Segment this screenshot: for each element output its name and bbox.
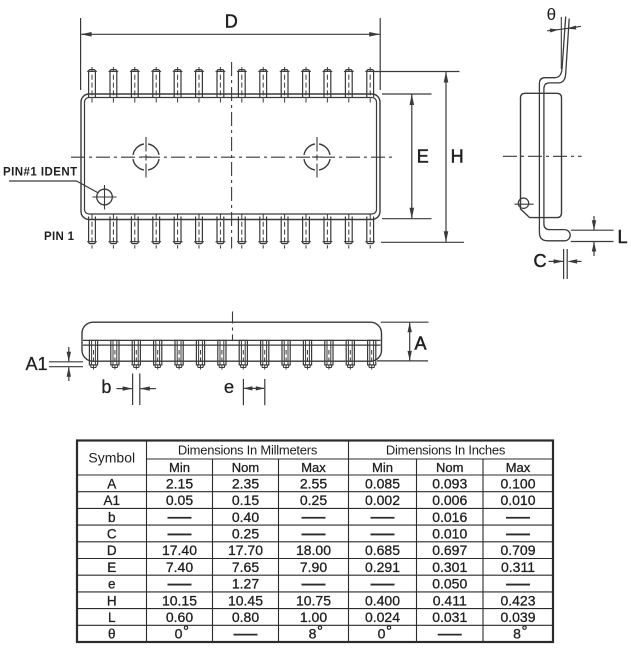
- top view pin (bottom row) 6: [194, 214, 204, 249]
- svg-text:Dimensions In Millmeters: Dimensions In Millmeters: [178, 442, 318, 457]
- svg-text:0.050: 0.050: [432, 576, 467, 592]
- table row A1: [103, 492, 535, 508]
- svg-text:10.15: 10.15: [162, 592, 197, 608]
- top view vertical centerline: [231, 62, 233, 249]
- label PIN#1 IDENT: [3, 167, 78, 179]
- svg-text:C: C: [534, 251, 547, 271]
- side view pin 12: [325, 340, 333, 371]
- dimension e arrows: [243, 386, 264, 390]
- dimension H extension lines: [375, 72, 465, 243]
- dimension H line: [444, 72, 449, 243]
- svg-text:0.25: 0.25: [300, 492, 327, 508]
- top view pin 14 (top row): [365, 67, 375, 103]
- end view notch circle: [515, 198, 534, 208]
- svg-text:0.709: 0.709: [500, 542, 535, 558]
- svg-text:e: e: [108, 577, 116, 592]
- svg-text:D: D: [107, 543, 117, 558]
- table row E: [107, 559, 535, 575]
- svg-text:θ: θ: [108, 627, 116, 642]
- top view pin (bottom row) 3: [130, 214, 140, 249]
- label L: [618, 227, 628, 247]
- top view index hole left: [133, 137, 159, 178]
- top view pin (bottom row) 8: [237, 214, 247, 249]
- svg-text:e: e: [224, 376, 234, 397]
- top view pin (bottom row) 2: [109, 214, 119, 249]
- svg-text:1.00: 1.00: [300, 609, 327, 625]
- svg-text:PIN#1 IDENT: PIN#1 IDENT: [3, 167, 78, 179]
- table header Dimensions In Millmeters: [178, 442, 318, 457]
- svg-text:Nom: Nom: [232, 460, 259, 475]
- svg-text:0: 0: [175, 626, 183, 642]
- label b: [101, 377, 111, 397]
- svg-text:0.423: 0.423: [500, 592, 535, 608]
- svg-text:0.010: 0.010: [432, 525, 467, 541]
- top view pin (bottom row) 12: [323, 214, 333, 249]
- label C: [534, 251, 547, 271]
- dimension D line: [81, 32, 381, 37]
- svg-text:7.40: 7.40: [166, 559, 193, 575]
- table row C: [107, 525, 530, 541]
- svg-text:A1: A1: [103, 493, 120, 508]
- table row D: [107, 542, 536, 558]
- top view pin 6 (top row): [194, 67, 204, 103]
- svg-text:7.65: 7.65: [232, 559, 259, 575]
- svg-text:L: L: [618, 227, 628, 247]
- top view pin 12 (top row): [323, 67, 333, 103]
- svg-text:0.685: 0.685: [365, 542, 400, 558]
- svg-text:2.15: 2.15: [166, 475, 193, 491]
- svg-text:0.15: 0.15: [232, 492, 259, 508]
- side view pin 6: [196, 340, 204, 371]
- dimension L extension lines: [571, 230, 614, 241]
- svg-text:0.016: 0.016: [432, 509, 467, 525]
- svg-text:0.400: 0.400: [365, 592, 400, 608]
- end view theta reference line: [560, 17, 562, 69]
- svg-text:7.90: 7.90: [300, 559, 327, 575]
- theta angle arc: [547, 26, 581, 33]
- top view pin (bottom row) 4: [151, 214, 161, 249]
- top view pin 10 (top row): [280, 67, 290, 103]
- dimension D extension lines: [81, 18, 381, 90]
- dimension C extension lines: [564, 249, 568, 279]
- top view pin (bottom row) 10: [280, 214, 290, 249]
- side view pin 5: [175, 340, 183, 371]
- svg-text:0.80: 0.80: [232, 609, 259, 625]
- side view pin 3: [132, 340, 140, 371]
- dimension A extension lines: [377, 322, 429, 361]
- table outer border: [77, 441, 553, 643]
- svg-text:2.35: 2.35: [232, 475, 259, 491]
- end view horizontal centerline: [503, 155, 582, 157]
- top view index hole right: [304, 137, 330, 178]
- side view vertical centerline: [232, 312, 234, 342]
- table row &#952;: [108, 626, 526, 642]
- svg-text:Max: Max: [301, 460, 326, 475]
- dimension b extension lines: [133, 374, 140, 406]
- svg-text:Max: Max: [506, 460, 531, 475]
- table header Dimensions In Inches: [386, 442, 506, 457]
- svg-text:0.010: 0.010: [500, 492, 535, 508]
- svg-text:0.093: 0.093: [432, 475, 467, 491]
- dimension E line: [410, 94, 415, 219]
- dimension E extension lines: [382, 94, 432, 219]
- svg-text:0.002: 0.002: [365, 492, 400, 508]
- label D: [225, 12, 238, 32]
- svg-text:H: H: [107, 593, 117, 608]
- label E: [417, 147, 429, 167]
- svg-text:8: 8: [309, 626, 317, 642]
- svg-text:0.039: 0.039: [500, 609, 535, 625]
- top view pin (bottom row) 7: [216, 214, 226, 249]
- dimension C arrows: [549, 259, 582, 263]
- svg-text:E: E: [107, 560, 116, 575]
- label PIN 1: [44, 231, 75, 243]
- svg-text:0: 0: [378, 626, 386, 642]
- svg-text:10.45: 10.45: [228, 592, 263, 608]
- side view pin 1: [89, 340, 97, 371]
- dimension L arrows: [592, 216, 596, 256]
- svg-text:8: 8: [513, 626, 521, 642]
- svg-text:0.100: 0.100: [500, 475, 535, 491]
- label A: [415, 333, 427, 353]
- svg-text:18.00: 18.00: [296, 542, 331, 558]
- svg-text:0.024: 0.024: [365, 609, 400, 625]
- svg-text:0.411: 0.411: [433, 592, 467, 608]
- svg-text:Nom: Nom: [436, 460, 463, 475]
- svg-text:A1: A1: [26, 354, 48, 374]
- table column lines: [147, 441, 484, 643]
- side view body outline: [82, 322, 382, 361]
- top view pin 9 (top row): [258, 67, 268, 103]
- svg-text:θ: θ: [547, 5, 556, 24]
- label H: [451, 147, 464, 167]
- top view pin (bottom row) 13: [344, 214, 354, 249]
- svg-text:Min: Min: [169, 460, 190, 475]
- svg-text:Min: Min: [372, 460, 393, 475]
- end view lead inner face: [544, 19, 569, 230]
- side view pin 4: [154, 340, 162, 371]
- top view pin 7 (top row): [216, 67, 226, 103]
- pin 1 ident leader line: [9, 181, 98, 193]
- svg-text:Dimensions In Inches: Dimensions In Inches: [386, 442, 506, 457]
- svg-text:1.27: 1.27: [232, 576, 259, 592]
- top view pin 3 (top row): [130, 67, 140, 103]
- top view horizontal centerline: [71, 156, 393, 158]
- dimension b arrows: [117, 386, 156, 390]
- svg-text:0.40: 0.40: [232, 509, 259, 525]
- side view pin 13: [346, 340, 354, 371]
- top view pin 11 (top row): [301, 67, 311, 103]
- top view pin (bottom row) 1: [87, 214, 97, 249]
- dimension A1 arrows: [67, 347, 71, 381]
- side view pin 10: [282, 340, 290, 371]
- top view pin 4 (top row): [151, 67, 161, 103]
- svg-text:0.085: 0.085: [365, 475, 400, 491]
- side view pin 7: [218, 340, 226, 371]
- pin 1 ident circle: [93, 185, 117, 210]
- svg-text:PIN 1: PIN 1: [44, 231, 75, 243]
- svg-text:17.70: 17.70: [228, 542, 263, 558]
- label A1: [26, 354, 48, 374]
- top view pin 1 (top row): [87, 67, 97, 103]
- top view pin 5 (top row): [173, 67, 183, 103]
- svg-text:D: D: [225, 12, 238, 32]
- top view pin 8 (top row): [237, 67, 247, 103]
- top view pin (bottom row) 9: [258, 214, 268, 249]
- table row lines: [77, 459, 553, 625]
- side view seam lines: [83, 340, 381, 345]
- side view pin 14: [368, 340, 376, 371]
- table row L: [108, 609, 536, 625]
- table row e: [108, 576, 530, 592]
- svg-text:0.25: 0.25: [232, 525, 259, 541]
- svg-text:A: A: [415, 333, 427, 353]
- svg-text:0.311: 0.311: [501, 559, 535, 575]
- svg-text:H: H: [451, 147, 464, 167]
- table row b: [108, 509, 530, 525]
- svg-text:0.301: 0.301: [432, 559, 467, 575]
- svg-text:A: A: [107, 476, 116, 491]
- top view package body outline: [81, 94, 380, 220]
- svg-text:C: C: [107, 526, 117, 541]
- svg-text:2.55: 2.55: [300, 475, 327, 491]
- end view body outline: [521, 93, 562, 217]
- top view pin (bottom row) 11: [301, 214, 311, 249]
- side view pin 8: [239, 340, 247, 371]
- top view pin (bottom row) 5: [173, 214, 183, 249]
- svg-text:0.031: 0.031: [432, 609, 467, 625]
- top view pin (bottom row) 14: [365, 214, 375, 249]
- svg-text:b: b: [108, 510, 116, 525]
- side view pin 9: [261, 340, 269, 371]
- table row H: [107, 592, 536, 608]
- label theta: [547, 5, 556, 24]
- dimension e extension lines: [243, 379, 264, 405]
- svg-text:17.40: 17.40: [162, 542, 197, 558]
- svg-text:b: b: [101, 377, 111, 397]
- svg-text:0.291: 0.291: [365, 559, 400, 575]
- svg-text:0.60: 0.60: [166, 609, 193, 625]
- svg-text:0.05: 0.05: [166, 492, 193, 508]
- svg-text:L: L: [108, 610, 116, 625]
- top view pin 2 (top row): [109, 67, 119, 103]
- svg-text:E: E: [417, 147, 429, 167]
- dimension A1 extension lines: [49, 362, 83, 367]
- svg-text:0.697: 0.697: [432, 542, 467, 558]
- dimension A line: [408, 322, 412, 361]
- end view lead outer face: [539, 17, 570, 241]
- table row A: [107, 475, 535, 491]
- svg-text:10.75: 10.75: [296, 592, 331, 608]
- table header Symbol: [88, 450, 135, 466]
- svg-text:0.006: 0.006: [432, 492, 467, 508]
- side view pin 11: [303, 340, 311, 371]
- svg-text:Symbol: Symbol: [88, 450, 135, 466]
- table header Min Nom Max: [169, 460, 531, 475]
- top view pin 13 (top row): [344, 67, 354, 103]
- label e: [224, 376, 234, 397]
- side view pin 2: [111, 340, 119, 371]
